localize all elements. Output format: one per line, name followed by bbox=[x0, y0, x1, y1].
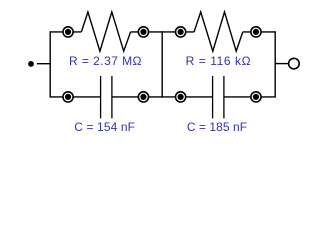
terminal node: C2 right circled dot bbox=[251, 92, 261, 102]
wire: left junction vertical bbox=[49, 31, 51, 97]
wire: bottom rail middle segment bbox=[112, 96, 213, 98]
terminal node: R2 left circled dot bbox=[176, 27, 186, 37]
terminal node: C1 left circled dot bbox=[63, 92, 73, 102]
svg-text:C = 185 nF: C = 185 nF bbox=[187, 120, 247, 134]
wire: top rail left segment bbox=[50, 31, 81, 33]
terminal node: C2 left circled dot bbox=[176, 92, 186, 102]
input terminal dot bbox=[28, 61, 34, 67]
resistor R1 zigzag bbox=[81, 12, 130, 51]
wire: top rail middle segment bbox=[131, 31, 195, 33]
svg-text:R = 116 kΩ: R = 116 kΩ bbox=[186, 54, 252, 68]
wire: middle junction vertical bbox=[161, 31, 163, 97]
terminal node: R2 right circled dot bbox=[251, 27, 261, 37]
wire: right junction vertical bbox=[274, 31, 276, 97]
wire: bottom rail right segment bbox=[224, 96, 275, 98]
capacitor C1 plates bbox=[101, 76, 112, 118]
terminal node: C1 right circled dot bbox=[138, 92, 148, 102]
svg-text:C = 154 nF: C = 154 nF bbox=[74, 120, 135, 134]
output terminal open circle bbox=[289, 58, 300, 69]
wire: input lead bbox=[37, 63, 51, 65]
wire: bottom rail left segment bbox=[50, 96, 100, 98]
terminal node: R1 right circled dot bbox=[138, 27, 148, 37]
capacitor C2 plates bbox=[213, 76, 224, 118]
wire: output lead bbox=[275, 63, 288, 65]
wire: top rail right segment bbox=[243, 31, 275, 33]
svg-text:R = 2.37 MΩ: R = 2.37 MΩ bbox=[69, 54, 142, 68]
resistor R2 zigzag bbox=[194, 12, 243, 51]
terminal node: R1 left circled dot bbox=[63, 27, 73, 37]
